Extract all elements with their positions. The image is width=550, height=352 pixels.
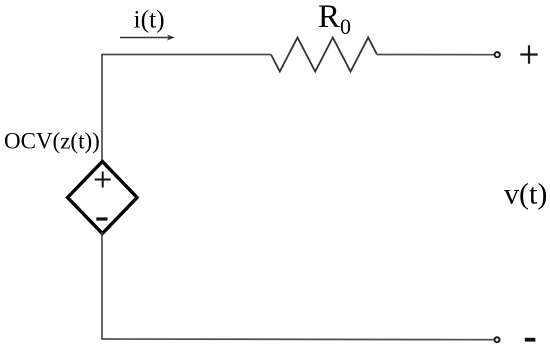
node: negative output terminal (open circle) bbox=[495, 337, 500, 342]
wire: bottom horizontal to negative terminal bbox=[101, 338, 494, 341]
svg-text:R: R bbox=[318, 0, 340, 35]
wire: top horizontal from corner to resistor bbox=[101, 54, 271, 56]
wire: left vertical (top rail down to source) bbox=[101, 55, 103, 163]
dependent source U1 (diamond) bbox=[68, 161, 138, 233]
label: - at negative terminal bbox=[525, 338, 536, 342]
node: positive output terminal (open circle) bbox=[495, 52, 500, 57]
current direction arrow bbox=[120, 35, 175, 41]
label: + at positive terminal bbox=[520, 45, 537, 63]
label: - inside source bbox=[96, 217, 107, 220]
svg-text:i(t): i(t) bbox=[134, 5, 165, 34]
svg-text:v(t): v(t) bbox=[504, 178, 547, 211]
label: + inside source bbox=[95, 172, 111, 188]
svg-text:0: 0 bbox=[340, 14, 351, 39]
wire: left vertical (source - to bottom rail) bbox=[101, 232, 103, 339]
resistor R0 bbox=[271, 38, 377, 72]
svg-text:OCV(z(t)): OCV(z(t)) bbox=[4, 129, 100, 154]
wire: resistor to positive terminal bbox=[377, 54, 494, 56]
